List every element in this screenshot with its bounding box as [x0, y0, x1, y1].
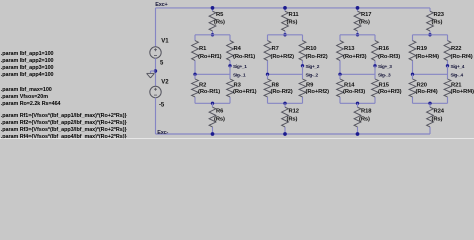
wire bridge bottom col4 — [413, 102, 448, 104]
junction dot node Sig+_4 — [446, 64, 449, 67]
svg-text:R9: R9 — [306, 83, 314, 89]
svg-text:(Ro-Rf3): (Ro-Rf3) — [378, 54, 400, 60]
svg-text:Exc-: Exc- — [157, 130, 168, 136]
resistor R10 value (Ro-Rf2) — [299, 35, 328, 66]
svg-text:(Ro-Rf3): (Ro-Rf3) — [343, 89, 365, 95]
svg-text:(Rs): (Rs) — [432, 20, 443, 26]
resistor R5 value (Rs) — [209, 8, 225, 35]
svg-text:Sig+_3: Sig+_3 — [378, 64, 392, 70]
svg-text:R11: R11 — [289, 12, 300, 18]
svg-text:(Ro+Rf2): (Ro+Rf2) — [271, 54, 295, 60]
junction dot node Sig-_4 — [411, 73, 414, 76]
svg-text:R17: R17 — [361, 12, 371, 18]
resistor R13 value (Ro+Rf3) — [337, 35, 367, 75]
resistor R8 value (Ro-Rf2) — [264, 74, 293, 103]
wire V1 bottom to mid node — [155, 58, 157, 71]
wire bridge bottom col2 — [268, 102, 303, 104]
svg-text:Sig+_1: Sig+_1 — [233, 64, 247, 70]
voltage source V2 — [150, 80, 169, 109]
junction dot node Sig+_2 — [301, 64, 304, 67]
resistor R7 value (Ro+Rf2) — [264, 35, 294, 75]
svg-text:R3: R3 — [234, 83, 242, 89]
wire bridge bottom col1 — [195, 102, 230, 104]
junction dot bridge top col4 — [428, 33, 431, 36]
svg-text:(Ro-Rf1): (Ro-Rf1) — [198, 89, 220, 95]
resistor R3 value (Ro+Rf1) — [227, 66, 257, 104]
svg-text:(Ro+Rf3): (Ro+Rf3) — [378, 89, 402, 95]
svg-text:R15: R15 — [379, 83, 390, 89]
svg-text:.param lbf_app3=100: .param lbf_app3=100 — [1, 65, 54, 71]
svg-text:(Ro-Rf4): (Ro-Rf4) — [451, 54, 473, 60]
resistor R14 value (Ro-Rf3) — [337, 74, 366, 103]
svg-text:(Ro+Rf1): (Ro+Rf1) — [198, 54, 222, 60]
svg-text:R23: R23 — [434, 12, 445, 18]
wire node Sig-_4 — [413, 73, 448, 75]
svg-text:R13: R13 — [344, 46, 355, 52]
junction dot bridge bottom col4 — [428, 102, 431, 105]
svg-text:(Rs): (Rs) — [359, 20, 370, 26]
resistor R4 value (Ro-Rf1) — [227, 35, 256, 66]
svg-text:Sig-_1: Sig-_1 — [233, 73, 246, 79]
junction dot node Sig+_3 — [373, 64, 376, 67]
svg-text:.param lbf_app2=100: .param lbf_app2=100 — [1, 58, 54, 64]
svg-text:Sig-_2: Sig-_2 — [306, 73, 319, 79]
svg-text:V1: V1 — [161, 38, 169, 44]
svg-text:Exc+: Exc+ — [155, 2, 167, 8]
resistor R20 value (Ro-Rf4) — [409, 74, 438, 103]
junction dot top rail col1 — [211, 6, 215, 10]
svg-text:(Rs): (Rs) — [214, 20, 225, 26]
junction dot node Sig-_3 — [338, 73, 341, 76]
junction dot bottom rail col3 — [356, 132, 360, 136]
svg-text:-5: -5 — [159, 103, 165, 109]
wire bridge top col2 — [268, 34, 303, 36]
svg-text:V2: V2 — [161, 80, 169, 86]
resistor R15 value (Ro+Rf3) — [372, 66, 402, 104]
resistor R11 value (Rs) — [282, 8, 300, 35]
bottom window edge — [0, 137, 474, 140]
svg-text:.param Ro=2.2k Rs=464: .param Ro=2.2k Rs=464 — [1, 101, 61, 107]
svg-text:.param Vfsos=20m: .param Vfsos=20m — [1, 94, 48, 100]
resistor R9 value (Ro+Rf2) — [299, 66, 329, 104]
spice directive .param block — [1, 51, 128, 140]
svg-text:(Ro+Rf1): (Ro+Rf1) — [233, 89, 257, 95]
wire node Sig-_3 — [340, 73, 375, 75]
junction dot node Sig-_1 — [193, 73, 196, 76]
wire Exc- bottom rail — [156, 133, 431, 135]
svg-text:(Rs): (Rs) — [287, 116, 298, 122]
svg-text:R22: R22 — [451, 46, 461, 52]
svg-text:R6: R6 — [216, 108, 224, 114]
svg-text:.param Rf1={Vfsos*(lbf_app1/lb: .param Rf1={Vfsos*(lbf_app1/lbf_max)*(Ro… — [1, 113, 128, 119]
junction dot bridge top col2 — [283, 33, 286, 36]
svg-text:R24: R24 — [434, 108, 445, 114]
svg-text:R19: R19 — [417, 46, 428, 52]
resistor R19 value (Ro+Rf4) — [409, 35, 439, 75]
wire bridge bottom col3 — [340, 102, 375, 104]
resistor R2 value (Ro-Rf1) — [192, 74, 221, 103]
svg-text:(Ro-Rf4): (Ro-Rf4) — [416, 89, 438, 95]
resistor R12 value (Rs) — [282, 103, 299, 134]
svg-text:R5: R5 — [216, 12, 224, 18]
svg-text:R20: R20 — [417, 83, 427, 89]
ground — [147, 71, 156, 78]
svg-text:R14: R14 — [344, 83, 355, 89]
svg-text:(Ro+Rf2): (Ro+Rf2) — [306, 89, 330, 95]
svg-text:Sig+_4: Sig+_4 — [451, 64, 465, 70]
svg-text:(Rs): (Rs) — [214, 116, 225, 122]
svg-text:.param Rf3={Vfsos*(lbf_app3/lb: .param Rf3={Vfsos*(lbf_app3/lbf_max)*(Ro… — [1, 127, 128, 133]
junction dot bridge top col3 — [356, 33, 359, 36]
resistor R18 value (Rs) — [354, 103, 372, 134]
wire node Sig-_2 — [268, 73, 303, 75]
resistor R6 value (Rs) — [209, 103, 225, 134]
junction dot bridge top col1 — [211, 33, 214, 36]
wire bridge top col1 — [195, 34, 230, 36]
junction dot bridge bottom col1 — [211, 102, 214, 105]
svg-text:R12: R12 — [289, 108, 299, 114]
svg-text:Sig-_3: Sig-_3 — [378, 73, 391, 79]
svg-text:R21: R21 — [451, 83, 462, 89]
junction dot bottom rail col1 — [211, 132, 215, 136]
svg-text:(Ro-Rf2): (Ro-Rf2) — [271, 89, 293, 95]
junction dot top rail col2 — [283, 6, 287, 10]
svg-text:R16: R16 — [379, 46, 390, 52]
svg-text:R8: R8 — [272, 83, 280, 89]
junction dot top rail col3 — [356, 6, 360, 10]
wire bridge top col3 — [340, 34, 375, 36]
resistor R16 value (Ro-Rf3) — [372, 35, 401, 66]
resistor R23 value (Rs) — [427, 8, 445, 35]
svg-text:Sig+_2: Sig+_2 — [306, 64, 320, 70]
wire left vertical V1 top — [155, 8, 157, 47]
resistor R24 value (Rs) — [427, 103, 445, 134]
svg-text:(Ro+Rf3): (Ro+Rf3) — [343, 54, 367, 60]
wire node Sig-_1 — [195, 73, 230, 75]
svg-text:.param lbf_app1=100: .param lbf_app1=100 — [1, 51, 54, 57]
svg-text:R1: R1 — [199, 46, 207, 52]
wire Exc+ top rail — [156, 7, 431, 9]
svg-text:R10: R10 — [306, 46, 316, 52]
svg-text:R7: R7 — [272, 46, 279, 52]
junction dot bridge bottom col2 — [283, 102, 286, 105]
svg-text:(Rs): (Rs) — [287, 20, 298, 26]
svg-text:.param lbf_app4=100: .param lbf_app4=100 — [1, 72, 54, 78]
junction dot node Sig-_2 — [266, 73, 269, 76]
svg-text:(Ro+Rf4): (Ro+Rf4) — [451, 89, 474, 95]
svg-text:.param lbf_max=100: .param lbf_max=100 — [1, 87, 52, 93]
voltage source V1 — [150, 38, 169, 66]
svg-text:(Ro-Rf2): (Ro-Rf2) — [306, 54, 328, 60]
svg-text:Sig-_4: Sig-_4 — [451, 73, 464, 79]
wire bridge top col4 — [413, 34, 448, 36]
svg-text:R2: R2 — [199, 83, 206, 89]
junction dot bridge bottom col3 — [356, 102, 359, 105]
junction dot node Sig+_1 — [228, 64, 231, 67]
svg-text:(Rs): (Rs) — [359, 116, 370, 122]
resistor R22 value (Ro-Rf4) — [444, 35, 473, 66]
wire V2 bottom to Exc- rail — [155, 98, 157, 134]
svg-text:.param Rf2={Vfsos*(lbf_app2/lb: .param Rf2={Vfsos*(lbf_app2/lbf_max)*(Ro… — [1, 120, 128, 126]
svg-text:(Ro-Rf1): (Ro-Rf1) — [233, 54, 255, 60]
resistor R1 value (Ro+Rf1) — [192, 35, 222, 75]
junction dot between V1 and V2 — [154, 69, 157, 72]
resistor R21 value (Ro+Rf4) — [444, 66, 474, 104]
svg-text:(Ro+Rf4): (Ro+Rf4) — [416, 54, 440, 60]
svg-text:R18: R18 — [361, 108, 372, 114]
resistor R17 value (Rs) — [354, 8, 371, 35]
svg-text:R4: R4 — [234, 46, 242, 52]
svg-text:(Rs): (Rs) — [432, 116, 443, 122]
wire mid node to V2 top — [155, 71, 157, 86]
junction dot bottom rail col2 — [283, 132, 287, 136]
